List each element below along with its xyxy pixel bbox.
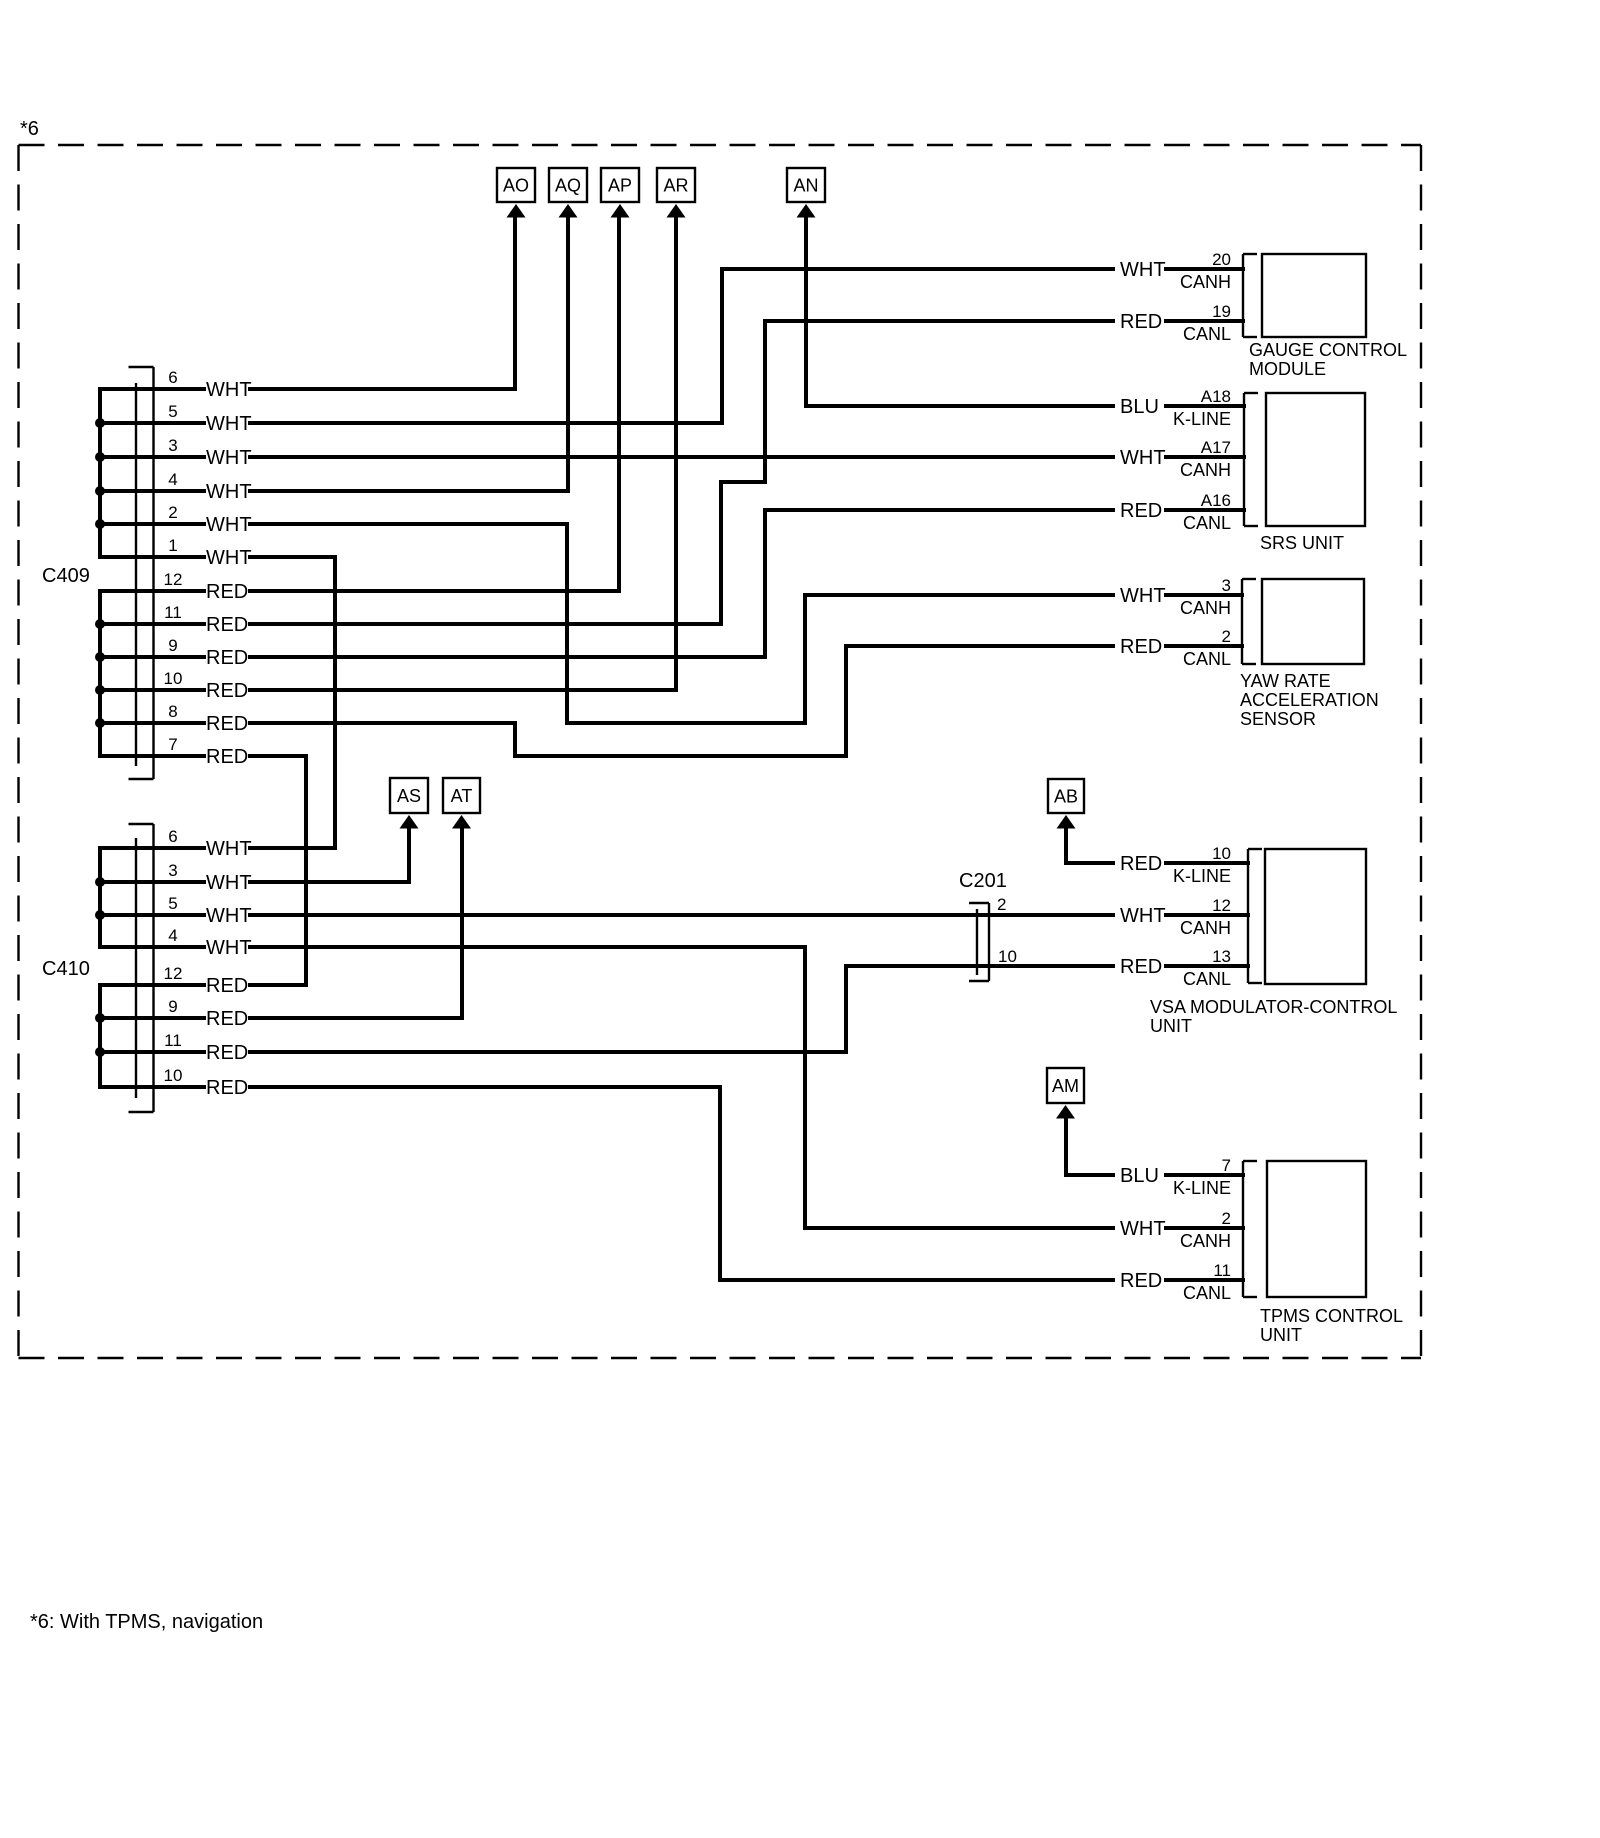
svg-text:WHT: WHT <box>206 447 252 469</box>
wire C409 pin 6 WHT to AO <box>250 217 515 389</box>
svg-text:10: 10 <box>1212 844 1231 863</box>
junction dot C409 pin 4 <box>95 486 105 496</box>
label: TPMS CONTROL UNIT <box>1260 1306 1403 1345</box>
svg-text:A17: A17 <box>1201 438 1231 457</box>
svg-text:12: 12 <box>164 964 183 983</box>
svg-text:9: 9 <box>168 636 177 655</box>
svg-text:RED: RED <box>1120 1270 1162 1292</box>
arrowhead into AT <box>452 815 471 829</box>
arrowhead into AP <box>611 204 630 218</box>
svg-text:11: 11 <box>164 1031 182 1050</box>
svg-text:WHT: WHT <box>206 379 252 401</box>
wire C409 pin 2 stub <box>100 522 204 526</box>
svg-text:*6: With TPMS, navigation: *6: With TPMS, navigation <box>30 1611 263 1633</box>
svg-text:CANL: CANL <box>1183 969 1231 989</box>
right side wire color labels <box>1120 259 1166 1292</box>
dashed enclosure border (with TPMS, navigation option) <box>19 145 1422 1358</box>
yaw rate acceleration sensor box <box>1262 579 1364 664</box>
wire C410 pin 9 stub <box>100 1016 204 1020</box>
wire C409 pin 9 RED to SRS unit CANL <box>250 510 1113 657</box>
svg-text:RED: RED <box>206 975 248 997</box>
SRS unit box <box>1266 393 1365 526</box>
svg-text:RED: RED <box>206 647 248 669</box>
wire C409 pin 2 WHT to yaw rate sensor CANH <box>250 524 1113 723</box>
wire C410 pin 10 RED to TPMS control unit CANL <box>250 1087 1113 1280</box>
label: YAW RATE ACCELERATION SENSOR <box>1240 671 1379 729</box>
svg-text:AB: AB <box>1054 787 1078 807</box>
svg-text:WHT: WHT <box>206 838 252 860</box>
wire C410 pin 5 stub <box>100 913 204 917</box>
yaw rate acceleration sensor connector bracket <box>1242 579 1256 664</box>
arrowhead into AS <box>400 815 419 829</box>
VSA modulator-control unit box <box>1265 849 1366 984</box>
connector label box AQ <box>549 168 587 202</box>
svg-text:CANH: CANH <box>1180 1231 1231 1251</box>
svg-text:AN: AN <box>793 176 818 196</box>
TPMS control unit box <box>1267 1161 1366 1297</box>
wire C410 pin 11 stub <box>100 1050 204 1054</box>
connector label box AO <box>497 168 535 202</box>
svg-text:A18: A18 <box>1201 387 1231 406</box>
wire C410 pin 5 WHT to VSA modulator CANH via C201 <box>250 913 1113 917</box>
TPMS control unit connector bracket <box>1243 1161 1257 1297</box>
arrowhead into AB <box>1057 815 1076 829</box>
VSA modulator-control unit connector bracket <box>1248 849 1262 983</box>
junction dot C410 pin 9 <box>95 1013 105 1023</box>
wire C410 pin 4 stub <box>100 945 204 949</box>
connector label box AR <box>657 168 695 202</box>
svg-text:C410: C410 <box>42 958 90 980</box>
svg-text:CANH: CANH <box>1180 918 1231 938</box>
svg-text:WHT: WHT <box>206 905 252 927</box>
arrowhead into AM <box>1056 1105 1075 1119</box>
svg-text:BLU: BLU <box>1120 396 1159 418</box>
svg-text:2: 2 <box>1222 1209 1231 1228</box>
wire C409 pin 10 stub <box>100 688 204 692</box>
svg-text:4: 4 <box>168 926 177 945</box>
gauge control module connector bracket <box>1243 254 1257 337</box>
svg-text:AT: AT <box>451 786 473 806</box>
label: GAUGE CONTROL MODULE <box>1249 340 1407 379</box>
svg-text:K-LINE: K-LINE <box>1173 1178 1231 1198</box>
svg-text:2: 2 <box>997 895 1006 914</box>
svg-text:RED: RED <box>206 680 248 702</box>
svg-text:SRS UNIT: SRS UNIT <box>1260 533 1344 553</box>
C409 WHT bus <box>98 389 102 557</box>
wire C409 pin 12 RED to AP <box>250 217 619 591</box>
svg-text:AR: AR <box>663 176 688 196</box>
svg-text:RED: RED <box>206 1042 248 1064</box>
junction dot C410 pin 3 <box>95 877 105 887</box>
svg-text:AM: AM <box>1052 1076 1079 1096</box>
wire C409 pin 7 RED to C410 pin 12 <box>250 756 306 985</box>
label: SRS UNIT <box>1260 533 1344 553</box>
svg-text:TPMS CONTROL: TPMS CONTROL <box>1260 1306 1403 1326</box>
svg-text:3: 3 <box>1222 576 1231 595</box>
wire C409 pin 8 stub <box>100 721 204 725</box>
svg-text:10: 10 <box>164 1066 183 1085</box>
C410 pin numbers <box>164 827 183 1085</box>
connector label box AP <box>601 168 639 202</box>
svg-text:CANL: CANL <box>1183 513 1231 533</box>
connector C410 (body) <box>129 824 154 1112</box>
arrowhead into AO <box>507 204 526 218</box>
svg-text:SENSOR: SENSOR <box>1240 709 1316 729</box>
connector label box AN <box>787 168 825 202</box>
svg-text:7: 7 <box>168 735 177 754</box>
svg-text:RED: RED <box>1120 853 1162 875</box>
wire C409 pin 1 WHT to C410 pin 6 <box>250 557 335 848</box>
svg-text:RED: RED <box>206 713 248 735</box>
svg-text:7: 7 <box>1222 1156 1231 1175</box>
wire AN to SRS unit K-LINE <box>806 217 1113 406</box>
svg-text:VSA MODULATOR-CONTROL: VSA MODULATOR-CONTROL <box>1150 997 1397 1017</box>
C410 RED bus <box>98 985 102 1087</box>
connector C409 (body) <box>129 367 154 779</box>
svg-text:11: 11 <box>164 603 182 622</box>
svg-text:10: 10 <box>998 947 1017 966</box>
svg-text:K-LINE: K-LINE <box>1173 409 1231 429</box>
svg-text:WHT: WHT <box>206 413 252 435</box>
junction dot C409 pin 8 <box>95 718 105 728</box>
svg-text:RED: RED <box>206 746 248 768</box>
junction dot C409 pin 5 <box>95 418 105 428</box>
junction dot C409 pin 10 <box>95 685 105 695</box>
svg-text:CANH: CANH <box>1180 598 1231 618</box>
C409 wire color labels <box>206 379 252 768</box>
wire C410 pin 3 stub <box>100 880 204 884</box>
junction dot C409 pin 9 <box>95 652 105 662</box>
wire C409 pin 5 stub <box>100 421 204 425</box>
svg-text:20: 20 <box>1212 250 1231 269</box>
svg-text:CANL: CANL <box>1183 649 1231 669</box>
svg-text:K-LINE: K-LINE <box>1173 866 1231 886</box>
svg-text:A16: A16 <box>1201 491 1231 510</box>
wire C409 pin 4 stub <box>100 489 204 493</box>
svg-text:4: 4 <box>168 470 177 489</box>
wire C409 pin 11 RED to gauge control module CANL <box>250 321 1113 624</box>
svg-text:3: 3 <box>168 436 177 455</box>
svg-text:WHT: WHT <box>1120 585 1166 607</box>
wire C409 pin 5 WHT to gauge control module CANH <box>250 269 1113 423</box>
wire C409 pin 3 stub <box>100 455 204 459</box>
junction dot C409 pin 3 <box>95 452 105 462</box>
right side pin numbers <box>1201 250 1231 1280</box>
wire C409 pin 8 RED to yaw rate sensor CANL <box>250 646 1113 756</box>
connector label box AT <box>443 778 480 813</box>
svg-text:CANH: CANH <box>1180 460 1231 480</box>
connector label box AB <box>1048 779 1084 813</box>
wire C409 pin 4 WHT to AQ <box>250 217 568 491</box>
wire C410 pin 11 RED to VSA modulator CANL via C201 <box>250 966 1113 1052</box>
svg-text:RED: RED <box>1120 311 1162 333</box>
svg-text:AS: AS <box>397 786 421 806</box>
svg-text:GAUGE CONTROL: GAUGE CONTROL <box>1249 340 1407 360</box>
wire C410 pin 9 RED to AT <box>250 828 462 1018</box>
svg-text:WHT: WHT <box>206 872 252 894</box>
svg-text:RED: RED <box>1120 500 1162 522</box>
svg-text:AQ: AQ <box>555 176 581 196</box>
C409 RED bus <box>98 591 102 756</box>
svg-text:WHT: WHT <box>206 547 252 569</box>
connector label box AM <box>1047 1068 1084 1103</box>
wire C410 pin 12 stub <box>100 983 204 987</box>
svg-text:MODULE: MODULE <box>1249 359 1326 379</box>
svg-text:WHT: WHT <box>206 937 252 959</box>
svg-text:RED: RED <box>206 614 248 636</box>
arrowhead into AN <box>797 204 816 218</box>
right side wire segments into component pins <box>1166 269 1248 1280</box>
junction dot C410 pin 11 <box>95 1047 105 1057</box>
wire C410 pin 10 stub <box>100 1085 204 1089</box>
svg-text:RED: RED <box>206 581 248 603</box>
label: VSA MODULATOR-CONTROL UNIT <box>1150 997 1397 1036</box>
arrowhead into AQ <box>559 204 578 218</box>
svg-text:WHT: WHT <box>1120 447 1166 469</box>
gauge control module box <box>1262 254 1366 337</box>
svg-text:8: 8 <box>168 702 177 721</box>
wire C409 pin 7 stub <box>100 754 204 758</box>
svg-text:AP: AP <box>608 176 632 196</box>
wire C410 pin 3 WHT to AS <box>250 828 409 882</box>
svg-text:12: 12 <box>1212 896 1231 915</box>
svg-text:C409: C409 <box>42 565 90 587</box>
wire AM to TPMS control unit K-LINE <box>1066 1118 1113 1175</box>
connector C201 (in-line) <box>969 903 989 981</box>
svg-text:WHT: WHT <box>1120 1218 1166 1240</box>
svg-text:AO: AO <box>503 176 529 196</box>
right side pin names <box>1173 272 1231 1303</box>
connector label box AS <box>390 778 428 813</box>
C410 WHT bus <box>98 848 102 947</box>
svg-text:*6: *6 <box>20 118 39 140</box>
svg-text:13: 13 <box>1212 947 1231 966</box>
svg-text:9: 9 <box>168 997 177 1016</box>
svg-text:10: 10 <box>164 669 183 688</box>
svg-text:6: 6 <box>168 368 177 387</box>
svg-text:RED: RED <box>1120 956 1162 978</box>
svg-text:C201: C201 <box>959 870 1007 892</box>
wire C409 pin 3 WHT to SRS unit CANH <box>250 455 1113 459</box>
wire C409 pin 1 stub <box>100 555 204 559</box>
wire AB to VSA modulator K-LINE <box>1066 828 1113 863</box>
svg-text:UNIT: UNIT <box>1260 1325 1302 1345</box>
svg-text:2: 2 <box>168 503 177 522</box>
wire C409 pin 10 RED to AR <box>250 217 676 690</box>
svg-text:ACCELERATION: ACCELERATION <box>1240 690 1379 710</box>
wire C409 pin 12 stub <box>100 589 204 593</box>
svg-text:3: 3 <box>168 861 177 880</box>
svg-text:WHT: WHT <box>206 514 252 536</box>
wire C409 pin 9 stub <box>100 655 204 659</box>
C410 wire color labels <box>206 838 252 1099</box>
junction dot C409 pin 11 <box>95 619 105 629</box>
wire C409 pin 11 stub <box>100 622 204 626</box>
svg-text:5: 5 <box>168 402 177 421</box>
SRS unit connector bracket <box>1244 393 1258 526</box>
svg-text:19: 19 <box>1212 302 1231 321</box>
C409 pin numbers <box>164 368 183 754</box>
junction dot C409 pin 2 <box>95 519 105 529</box>
svg-text:WHT: WHT <box>1120 259 1166 281</box>
svg-text:WHT: WHT <box>206 481 252 503</box>
svg-text:BLU: BLU <box>1120 1165 1159 1187</box>
wire C409 pin 6 stub <box>100 387 204 391</box>
svg-text:1: 1 <box>168 536 177 555</box>
wire C410 pin 6 stub <box>100 846 204 850</box>
svg-text:5: 5 <box>168 894 177 913</box>
wire C410 pin 4 WHT to TPMS control unit CANH <box>250 947 1113 1228</box>
svg-text:RED: RED <box>206 1008 248 1030</box>
svg-text:11: 11 <box>1213 1261 1231 1280</box>
svg-text:RED: RED <box>1120 636 1162 658</box>
junction dot C410 pin 5 <box>95 910 105 920</box>
svg-text:WHT: WHT <box>1120 905 1166 927</box>
svg-text:UNIT: UNIT <box>1150 1016 1192 1036</box>
svg-text:CANL: CANL <box>1183 324 1231 344</box>
svg-text:2: 2 <box>1222 627 1231 646</box>
svg-text:6: 6 <box>168 827 177 846</box>
svg-text:12: 12 <box>164 570 183 589</box>
svg-text:CANL: CANL <box>1183 1283 1231 1303</box>
svg-text:YAW RATE: YAW RATE <box>1240 671 1331 691</box>
svg-text:RED: RED <box>206 1077 248 1099</box>
svg-text:CANH: CANH <box>1180 272 1231 292</box>
arrowhead into AR <box>667 204 686 218</box>
